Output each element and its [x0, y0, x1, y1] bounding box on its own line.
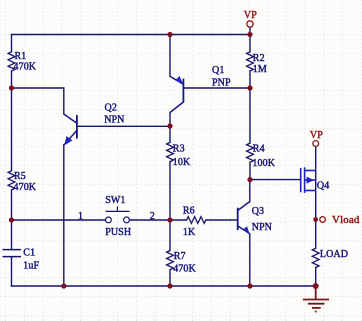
svg-text:2: 2	[150, 211, 155, 222]
junction Q2 emitter bottom rail	[61, 283, 66, 288]
power VP top	[244, 10, 257, 27]
svg-text:R2: R2	[253, 53, 265, 64]
transistor Q1	[170, 76, 183, 113]
svg-text:C1: C1	[23, 247, 35, 258]
wire R6 right to Q3 base	[206, 219, 238, 221]
svg-text:NPN: NPN	[252, 222, 272, 233]
wire left rail R5 to switch row	[11, 190, 13, 220]
wire left rail R1 to R5	[11, 71, 13, 171]
capacitor C1	[3, 250, 22, 257]
wire R7 bottom	[169, 270, 171, 286]
wire Q1 base	[184, 87, 250, 89]
wire top rail	[12, 34, 251, 36]
wire left rail switch row to C1	[11, 220, 13, 249]
wire Q2 emitter vertical	[63, 145, 65, 286]
svg-text:NPN: NPN	[104, 115, 124, 126]
resistor R5	[8, 171, 15, 190]
junction top rail Q1	[167, 32, 172, 37]
svg-text:SW1: SW1	[105, 195, 125, 206]
junction R7 bottom rail	[167, 283, 172, 288]
wire R3 bottom	[169, 162, 171, 220]
svg-text:PNP: PNP	[212, 77, 231, 88]
svg-text:R1: R1	[15, 51, 27, 62]
junction R1 R5 Q2 collector	[9, 85, 14, 90]
wire R2 top	[249, 35, 251, 52]
svg-text:VP: VP	[244, 10, 257, 21]
resistor R7	[167, 251, 174, 270]
junction LOAD ground	[313, 283, 319, 289]
svg-text:PUSH: PUSH	[105, 227, 131, 238]
junction R5 C1 switch	[9, 217, 14, 222]
wire Q4 gate	[250, 179, 300, 181]
svg-text:1M: 1M	[253, 64, 267, 75]
wire Q3 collector lead	[249, 180, 251, 202]
svg-text:470K: 470K	[173, 263, 196, 274]
junction Vload port	[313, 217, 318, 222]
resistor R6	[187, 217, 206, 224]
junction switch R3 R6 R7	[167, 217, 172, 222]
svg-text:R5: R5	[14, 171, 26, 182]
svg-text:1K: 1K	[183, 227, 196, 238]
svg-text:Q4: Q4	[317, 180, 329, 191]
svg-text:10K: 10K	[173, 157, 191, 168]
wire switch row left	[12, 219, 106, 221]
wire Q2 collector vertical	[63, 88, 65, 114]
wire R2 to Q1 base junction	[249, 71, 251, 88]
svg-text:470K: 470K	[14, 61, 37, 72]
svg-text:R7: R7	[174, 251, 186, 262]
junction Q3 emitter bottom rail	[247, 283, 252, 288]
svg-text:1uF: 1uF	[23, 261, 39, 272]
svg-text:R3: R3	[173, 144, 185, 155]
svg-text:Q3: Q3	[252, 206, 264, 217]
wire junction to R4	[249, 88, 251, 143]
port Vload	[320, 215, 360, 226]
wire switch row right	[130, 219, 171, 221]
power VP right	[310, 130, 323, 147]
wire bottom rail	[12, 285, 316, 287]
mosfet Q4	[301, 167, 316, 193]
transistor Q3	[238, 202, 250, 234]
resistor R4	[247, 143, 254, 162]
junction Q1 base R2 R4	[247, 85, 252, 90]
svg-text:470K: 470K	[14, 182, 37, 193]
wire R6 left	[170, 219, 187, 221]
wire Q3 emitter lead	[249, 234, 251, 286]
switch SW1	[106, 206, 130, 222]
svg-text:1: 1	[78, 211, 83, 222]
wire Q1 collector lead	[169, 113, 171, 127]
junction Q1 collector R3 Q2 base	[167, 123, 172, 128]
wire R7 top	[169, 220, 171, 251]
svg-text:R4: R4	[253, 144, 265, 155]
svg-text:Q2: Q2	[105, 102, 117, 113]
svg-text:100K: 100K	[252, 158, 275, 169]
wire Q2 collector horizontal	[12, 87, 64, 89]
wire LOAD to bottom rail	[315, 268, 317, 287]
resistor R1	[8, 52, 15, 71]
wire R3 top	[169, 126, 171, 142]
junction top rail VP	[247, 32, 252, 37]
resistor LOAD	[312, 248, 319, 267]
svg-text:VP: VP	[310, 130, 323, 141]
wire VP2 to Q4 drain	[315, 146, 317, 219]
transistor Q2	[64, 114, 77, 145]
wire VP stub to rail	[249, 27, 251, 34]
resistor R2	[247, 52, 254, 71]
wire R4 to gate junction	[249, 162, 251, 179]
ground	[303, 286, 329, 312]
svg-text:R6: R6	[183, 205, 195, 216]
wire C1 to bottom rail	[11, 257, 13, 286]
junction R4 Q3 collector Q4 gate	[247, 177, 252, 182]
svg-text:LOAD: LOAD	[320, 249, 348, 260]
wire Q4 source to LOAD	[315, 220, 317, 249]
wire left rail segment above R1	[11, 35, 13, 52]
resistor R3	[167, 142, 174, 161]
svg-text:Q1: Q1	[212, 65, 224, 76]
wire Q1 emitter lead	[169, 35, 171, 77]
svg-text:Vload: Vload	[332, 215, 360, 226]
wire Q2 base	[77, 125, 170, 127]
